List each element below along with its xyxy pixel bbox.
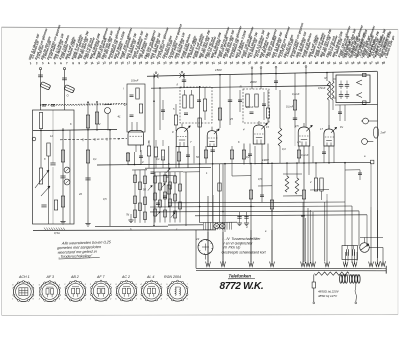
svg-text:130V: 130V xyxy=(262,158,270,162)
svg-text:0,1mF: 0,1mF xyxy=(301,153,309,157)
svg-text:0,5mF: 0,5mF xyxy=(246,105,254,109)
svg-text:4,5: 4,5 xyxy=(295,124,299,128)
svg-text:7d: 7d xyxy=(126,213,130,217)
svg-text:8772 W.K.: 8772 W.K. xyxy=(220,281,264,292)
svg-text:1: 1 xyxy=(85,298,86,300)
svg-text:0,2: 0,2 xyxy=(246,155,250,159)
svg-text:1: 1 xyxy=(64,284,65,286)
svg-text:0,1mF: 0,1mF xyxy=(286,105,294,109)
svg-text:0,3: 0,3 xyxy=(282,147,286,151)
svg-text:III: III xyxy=(240,85,243,89)
svg-text:20: 20 xyxy=(78,192,82,196)
svg-text:0,5: 0,5 xyxy=(103,197,107,201)
svg-text:4850Ω bij 220V: 4850Ω bij 220V xyxy=(318,289,340,293)
svg-text:0,5A: 0,5A xyxy=(54,231,60,235)
svg-text:0,1mF: 0,1mF xyxy=(292,92,300,96)
svg-text:RGN 2004: RGN 2004 xyxy=(164,275,181,279)
svg-text:2mF: 2mF xyxy=(380,131,387,135)
svg-text:0,1: 0,1 xyxy=(93,157,97,161)
svg-text:150V: 150V xyxy=(215,68,223,72)
svg-text:485Ω bij 127V: 485Ω bij 127V xyxy=(318,294,338,298)
svg-text:ACH 1: ACH 1 xyxy=(18,275,30,279)
svg-text:41: 41 xyxy=(118,115,122,119)
svg-text:1: 1 xyxy=(33,285,34,287)
svg-text:0,5mF: 0,5mF xyxy=(131,79,139,83)
svg-text:Pu: Pu xyxy=(340,125,344,129)
svg-text:AC 2: AC 2 xyxy=(121,275,130,279)
svg-text:200V: 200V xyxy=(249,80,258,84)
svg-text:AB 2: AB 2 xyxy=(70,275,79,279)
svg-text:25: 25 xyxy=(229,117,233,121)
svg-text:AF 3: AF 3 xyxy=(46,275,55,279)
svg-text:VII: VII xyxy=(196,237,199,241)
svg-text:0,5: 0,5 xyxy=(258,177,262,181)
svg-text:Gestreepte schakelstand kort: Gestreepte schakelstand kort xyxy=(222,250,267,254)
svg-text:0,5mF: 0,5mF xyxy=(318,86,326,90)
svg-text:AL 4: AL 4 xyxy=(146,275,154,279)
svg-text:0,1: 0,1 xyxy=(156,157,160,161)
svg-text:AF 7: AF 7 xyxy=(96,275,106,279)
svg-text:Telefunken: Telefunken xyxy=(229,274,252,279)
svg-text:1: 1 xyxy=(12,299,13,301)
svg-text:4,5: 4,5 xyxy=(297,140,301,144)
svg-text:VII Pick Up: VII Pick Up xyxy=(223,246,241,250)
svg-text:II: II xyxy=(177,83,179,87)
